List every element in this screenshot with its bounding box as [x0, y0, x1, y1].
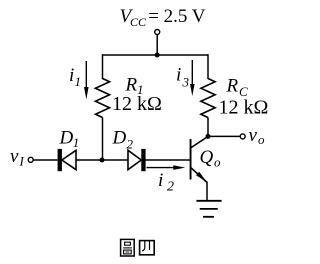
label D2 — [112, 128, 134, 152]
caption: character 圖 — [121, 239, 135, 256]
wire input to D1 — [33, 159, 57, 161]
svg-text:12 kΩ: 12 kΩ — [112, 93, 162, 115]
wire left branch upper — [102, 54, 104, 79]
wire right branch upper — [207, 54, 209, 79]
svg-text:3: 3 — [182, 75, 190, 90]
svg-text:D: D — [59, 128, 74, 149]
ground — [196, 201, 221, 217]
label vI — [10, 146, 25, 169]
svg-text:v: v — [10, 146, 19, 167]
svg-text:CC: CC — [130, 15, 147, 29]
resistor RC — [201, 79, 215, 118]
wire top rail — [103, 54, 209, 56]
label i1 — [69, 65, 81, 89]
wire collector to vo — [208, 135, 240, 137]
label i3 — [176, 65, 190, 90]
input terminal circle — [28, 157, 33, 162]
output terminal circle — [240, 134, 245, 139]
label i2 — [158, 170, 174, 195]
svg-text:= 2.5 V: = 2.5 V — [148, 6, 206, 27]
wire right branch lower — [207, 118, 209, 137]
transistor Qo — [190, 136, 208, 182]
svg-text:o: o — [214, 155, 221, 170]
svg-text:R: R — [226, 76, 239, 97]
diode D2 — [128, 149, 146, 171]
VCC terminal circle — [155, 30, 160, 35]
node top junction — [155, 53, 160, 58]
wire node A to D2 — [102, 159, 128, 161]
node A junction — [100, 158, 105, 163]
label R1 — [125, 75, 144, 98]
svg-text:Q: Q — [200, 147, 214, 168]
svg-text:D: D — [112, 128, 127, 149]
label RC — [226, 76, 249, 100]
svg-text:2: 2 — [167, 180, 174, 195]
svg-text:1: 1 — [73, 135, 80, 150]
wire D2 to base — [146, 159, 190, 161]
wire emitter to ground — [206, 182, 208, 201]
svg-text:12 kΩ: 12 kΩ — [219, 97, 269, 119]
label Qo — [200, 147, 222, 170]
label vo — [249, 125, 266, 147]
label D1 — [59, 128, 80, 151]
node collector junction — [206, 134, 211, 139]
diode D1 — [58, 149, 76, 171]
wire left branch lower — [102, 118, 104, 161]
current arrow i1 — [84, 61, 89, 100]
net VCC label — [120, 6, 206, 29]
resistor R1 — [95, 79, 109, 118]
caption: character 四 — [140, 241, 155, 255]
svg-text:i: i — [158, 170, 163, 191]
svg-text:i: i — [69, 65, 74, 86]
svg-text:i: i — [176, 65, 181, 86]
svg-text:I: I — [19, 154, 25, 169]
svg-text:v: v — [249, 125, 258, 146]
wire VCC stub — [156, 35, 158, 56]
svg-text:1: 1 — [75, 74, 82, 89]
current arrow i2 — [147, 165, 186, 170]
current arrow i3 — [190, 60, 195, 96]
svg-text:2: 2 — [127, 137, 134, 152]
wire D1 to node A — [76, 159, 102, 161]
svg-text:o: o — [258, 132, 265, 147]
